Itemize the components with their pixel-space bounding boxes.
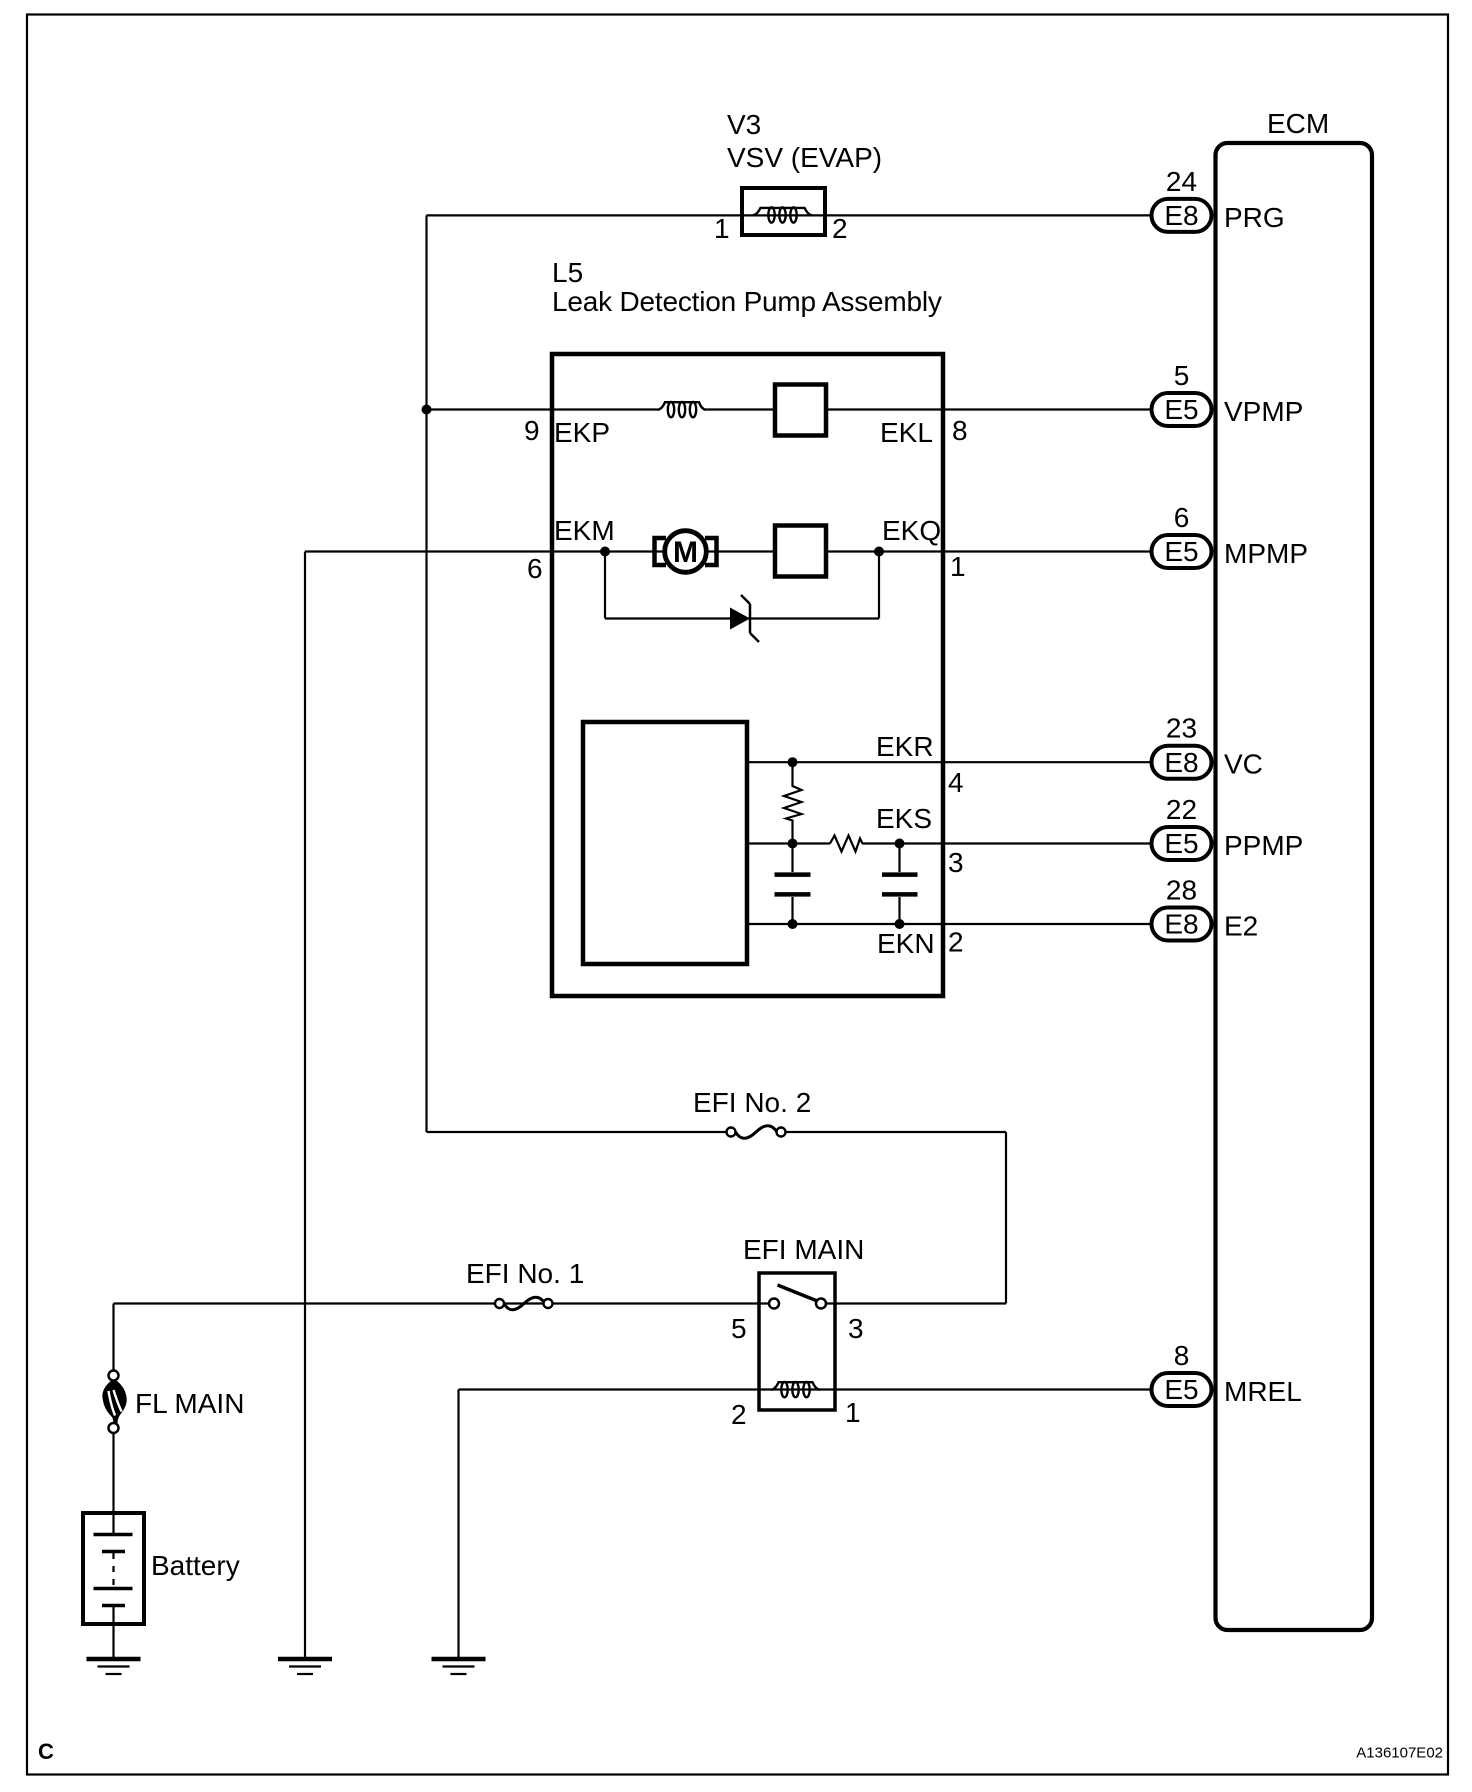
svg-text:1: 1 (950, 551, 966, 582)
svg-text:3: 3 (948, 847, 964, 878)
svg-text:6: 6 (527, 553, 543, 584)
svg-text:Leak Detection Pump Assembly: Leak Detection Pump Assembly (552, 286, 942, 317)
svg-text:E5: E5 (1164, 536, 1198, 567)
svg-text:3: 3 (848, 1313, 864, 1344)
svg-text:C: C (38, 1739, 54, 1764)
svg-text:E5: E5 (1164, 394, 1198, 425)
svg-text:EKL: EKL (880, 417, 933, 448)
svg-text:VC: VC (1224, 749, 1263, 780)
svg-text:L5: L5 (552, 257, 583, 288)
svg-text:PRG: PRG (1224, 202, 1285, 233)
svg-text:EKS: EKS (876, 803, 932, 834)
svg-text:E8: E8 (1164, 909, 1198, 940)
svg-text:8: 8 (952, 415, 968, 446)
svg-text:Battery: Battery (151, 1550, 240, 1581)
svg-text:EKM: EKM (554, 515, 615, 546)
svg-text:23: 23 (1166, 713, 1197, 744)
svg-text:24: 24 (1166, 166, 1197, 197)
svg-text:MREL: MREL (1224, 1376, 1302, 1407)
svg-text:M: M (673, 536, 698, 569)
svg-text:A136107E02: A136107E02 (1356, 1744, 1443, 1761)
svg-text:2: 2 (948, 927, 964, 958)
svg-text:4: 4 (948, 767, 964, 798)
svg-text:E8: E8 (1164, 747, 1198, 778)
svg-text:28: 28 (1166, 875, 1197, 906)
svg-text:EKR: EKR (876, 731, 934, 762)
svg-text:EKN: EKN (877, 928, 935, 959)
svg-text:9: 9 (524, 415, 540, 446)
svg-text:1: 1 (845, 1397, 861, 1428)
svg-text:8: 8 (1174, 1340, 1190, 1371)
svg-text:E5: E5 (1164, 1374, 1198, 1405)
svg-text:VPMP: VPMP (1224, 396, 1303, 427)
svg-text:EKQ: EKQ (882, 515, 941, 546)
svg-text:ECM: ECM (1267, 108, 1329, 139)
svg-text:E5: E5 (1164, 828, 1198, 859)
svg-text:MPMP: MPMP (1224, 538, 1308, 569)
svg-text:22: 22 (1166, 794, 1197, 825)
svg-text:E2: E2 (1224, 911, 1258, 942)
svg-text:PPMP: PPMP (1224, 830, 1303, 861)
svg-text:E8: E8 (1164, 200, 1198, 231)
svg-text:EFI No. 2: EFI No. 2 (693, 1087, 811, 1118)
svg-text:FL MAIN: FL MAIN (135, 1388, 244, 1419)
svg-text:5: 5 (1174, 360, 1190, 391)
svg-text:V3: V3 (727, 109, 761, 140)
svg-text:1: 1 (714, 213, 730, 244)
svg-text:5: 5 (731, 1313, 747, 1344)
svg-text:EFI No. 1: EFI No. 1 (466, 1258, 584, 1289)
svg-text:EFI MAIN: EFI MAIN (743, 1234, 864, 1265)
svg-text:2: 2 (731, 1399, 747, 1430)
svg-text:VSV (EVAP): VSV (EVAP) (727, 142, 882, 173)
svg-text:6: 6 (1174, 502, 1190, 533)
svg-text:2: 2 (832, 213, 848, 244)
svg-text:EKP: EKP (554, 417, 610, 448)
